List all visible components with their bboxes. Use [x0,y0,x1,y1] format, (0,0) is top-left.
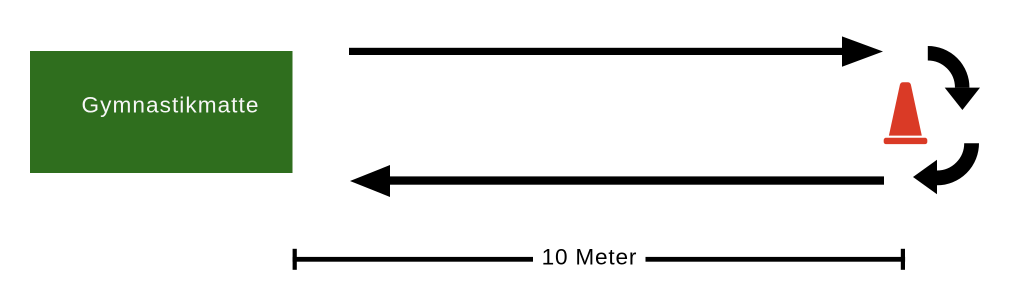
dimension line: right segment [646,257,906,262]
dimension line: left segment [293,257,533,262]
svg-text:10 Meter: 10 Meter [542,245,638,270]
turn arrow: bottom arc head (pointing left) [913,160,937,195]
bottom return arrow head [350,165,390,197]
pylon cone base bar [884,138,928,144]
top run arrow head [842,36,883,66]
pylon cone body [889,82,922,135]
wire: top run arrow shaft (left to right) [349,48,842,55]
turn arrow: top arc (clockwise over cone) [928,53,962,87]
wire: bottom return arrow shaft (right to left) [390,176,884,184]
gymnastics mat (green rectangle) [30,51,293,173]
turn arrow: bottom arc (clockwise back to left) [937,143,972,178]
turn arrow: top arc head (pointing down) [945,88,980,110]
dimension left tick [293,249,297,270]
svg-text:Gymnastikmatte: Gymnastikmatte [82,93,260,118]
dimension right tick [901,249,905,270]
